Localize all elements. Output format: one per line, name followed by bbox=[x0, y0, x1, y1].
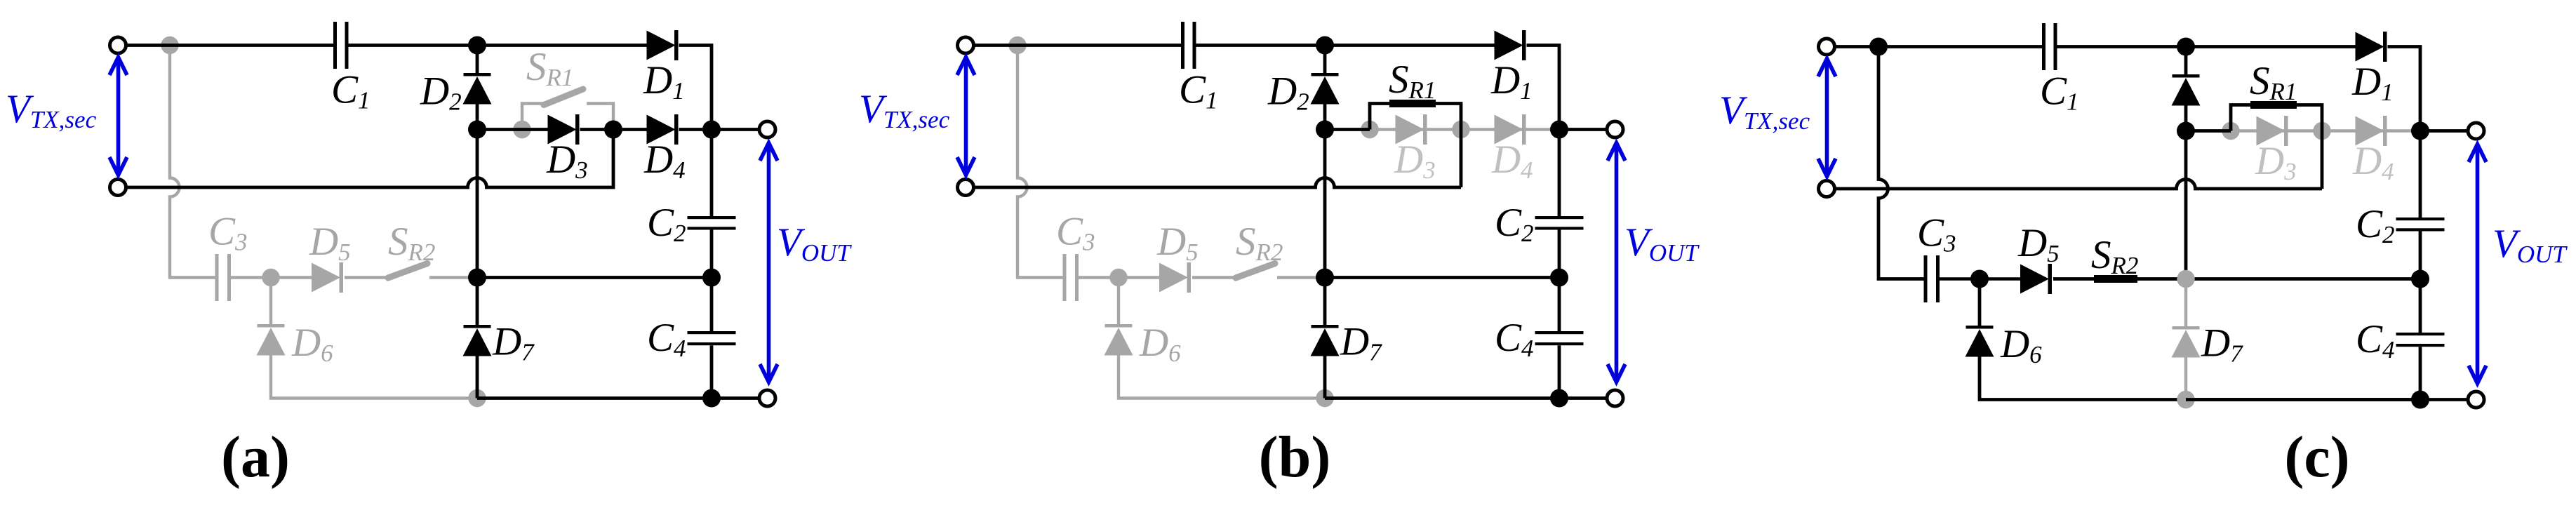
wire: C3 to D5 bbox=[1079, 276, 1159, 279]
svg-text:D4: D4 bbox=[2352, 139, 2394, 185]
junction dot: D3/D4 junction bbox=[2313, 122, 2330, 140]
wire: D1 to top-right corner, down right side bbox=[2388, 47, 2421, 218]
switch SR1 (closed) bypass bbox=[1325, 104, 1461, 188]
wire: output stub bbox=[2420, 129, 2468, 133]
switch SR2 (open) bbox=[388, 264, 427, 279]
capacitor C3 bbox=[215, 254, 219, 301]
svg-text:D1: D1 bbox=[643, 58, 685, 105]
junction dot: D3 anode bbox=[1361, 121, 1378, 138]
diode D2 bbox=[2173, 74, 2200, 78]
capacitor C2 bbox=[2396, 218, 2445, 220]
capacitor C2 bbox=[688, 216, 736, 219]
junction dot: bottom output node bbox=[702, 389, 721, 408]
wire: D5 through SR2 to node bbox=[2053, 277, 2186, 281]
junction dot: D2 top bbox=[2177, 38, 2195, 56]
svg-text:C4: C4 bbox=[1495, 316, 1534, 362]
wire: D6 branch down bbox=[1117, 278, 1120, 325]
svg-text:D1: D1 bbox=[1490, 58, 1533, 105]
terminal: Vout - bbox=[1607, 390, 1623, 406]
junction dot: C3/D5/D6 node bbox=[1970, 270, 1989, 288]
svg-text:SR1: SR1 bbox=[1389, 58, 1436, 104]
svg-text:C2: C2 bbox=[1495, 201, 1534, 247]
diode D3 (off) bbox=[1396, 115, 1424, 145]
svg-text:D2: D2 bbox=[420, 69, 462, 116]
panel (a) bbox=[6, 22, 852, 490]
junction dot: secondary tap on top wire bbox=[161, 36, 178, 54]
svg-text:VOUT: VOUT bbox=[2492, 222, 2568, 268]
wire: bottom rail bbox=[477, 396, 712, 400]
terminal: Vout - bbox=[2468, 392, 2484, 408]
diode D4 (off) bbox=[2356, 116, 2384, 146]
svg-text:(a): (a) bbox=[221, 424, 290, 490]
svg-text:VTX,sec: VTX,sec bbox=[6, 87, 97, 133]
diode D7 bbox=[1312, 325, 1339, 328]
junction dot: D2 top bbox=[1316, 36, 1334, 55]
svg-text:D3: D3 bbox=[1394, 138, 1436, 184]
switch SR1 (closed) bypass bbox=[2186, 105, 2322, 189]
diode D5 bbox=[312, 263, 340, 293]
junction dot: D2 bottom node bbox=[1316, 121, 1334, 139]
wire: top rail bbox=[126, 44, 333, 47]
diode D1 bbox=[2356, 32, 2384, 62]
svg-text:C4: C4 bbox=[2356, 317, 2395, 363]
wire: bottom rail bbox=[2186, 398, 2420, 401]
diode D6 bbox=[1105, 324, 1133, 328]
capacitor C1 bbox=[333, 22, 337, 69]
svg-text:C2: C2 bbox=[647, 201, 686, 247]
Vout arrow bbox=[1615, 145, 1619, 380]
capacitor C4 bbox=[2396, 333, 2445, 335]
wire: mid horizontal (C2/C4 junction row) bbox=[477, 276, 712, 279]
svg-text:VOUT: VOUT bbox=[777, 220, 852, 267]
junction dot: output node bbox=[2411, 122, 2429, 140]
wire: mid rectifier wire bbox=[477, 128, 548, 131]
svg-text:C3: C3 bbox=[1917, 211, 1956, 257]
wire: D1 to top-right corner, down right side bbox=[1527, 46, 1560, 217]
diode D1 bbox=[647, 31, 676, 60]
wire: mid horizontal (C2/C4 junction row) bbox=[2186, 277, 2420, 281]
diode D2 bbox=[1312, 73, 1339, 76]
svg-text:(b): (b) bbox=[1259, 424, 1331, 490]
junction dot: output node bbox=[702, 121, 721, 139]
Vtx arrow bbox=[964, 59, 968, 173]
svg-text:VOUT: VOUT bbox=[1624, 220, 1700, 267]
junction dot: SR1 left contact bbox=[513, 121, 530, 138]
junction dot: D7 bottom on bottom rail bbox=[1316, 389, 1333, 407]
svg-text:SR1: SR1 bbox=[526, 45, 573, 91]
terminal: transformer + bbox=[1819, 39, 1835, 55]
svg-text:C1: C1 bbox=[2040, 69, 2079, 116]
junction dot: C2/C4 node bbox=[1550, 269, 1568, 287]
terminal: transformer - bbox=[110, 180, 126, 196]
terminal: Vout - bbox=[759, 390, 775, 406]
junction dot: C2/C4 node bbox=[702, 269, 721, 287]
svg-text:D7: D7 bbox=[1340, 320, 1382, 366]
wire: mid horizontal (C2/C4 junction row) bbox=[1325, 276, 1559, 279]
svg-text:D3: D3 bbox=[546, 138, 588, 184]
capacitor C3 bbox=[1924, 255, 1928, 302]
terminal: transformer - bbox=[1819, 181, 1835, 197]
wire: D6 to bottom rail bbox=[271, 355, 477, 399]
diode D3 bbox=[548, 115, 577, 145]
svg-text:D2: D2 bbox=[1267, 69, 1309, 116]
wire: lower transformer wire with hop over main vertical bbox=[1835, 180, 2322, 189]
capacitor C4 bbox=[1535, 331, 1584, 334]
wire: main vertical (D2/D7 branch) bbox=[1323, 46, 1327, 74]
svg-text:VTX,sec: VTX,sec bbox=[1719, 88, 1810, 135]
svg-text:SR2: SR2 bbox=[2091, 233, 2138, 279]
junction dot: D2 top bbox=[468, 36, 486, 55]
capacitor C4 bbox=[688, 331, 736, 334]
svg-text:SR1: SR1 bbox=[2250, 59, 2297, 105]
svg-text:VTX,sec: VTX,sec bbox=[859, 87, 950, 133]
wire: SR2 to node bbox=[1277, 276, 1325, 279]
junction dot: D7 bottom on bottom rail bbox=[2177, 391, 2194, 408]
wire: output stub bbox=[712, 128, 759, 131]
diode D2 bbox=[464, 73, 491, 76]
svg-text:D1: D1 bbox=[2351, 60, 2394, 106]
junction dot: secondary tap on top wire bbox=[1008, 36, 1026, 54]
diode D6 bbox=[258, 324, 285, 328]
svg-text:C2: C2 bbox=[2356, 202, 2395, 248]
svg-text:D5: D5 bbox=[2017, 221, 2060, 267]
svg-text:C1: C1 bbox=[331, 68, 371, 114]
wire: lower transformer wire with hop over main vertical bbox=[126, 130, 613, 188]
diode D4 (off) bbox=[1495, 115, 1523, 145]
wire: D6 branch down bbox=[1978, 279, 1982, 326]
junction dot: D3 anode bbox=[2222, 122, 2239, 140]
capacitor C1 bbox=[2042, 23, 2046, 70]
svg-text:D3: D3 bbox=[2255, 139, 2297, 185]
wire: C3 to D5 bbox=[1940, 277, 2020, 280]
diode D7 bbox=[2173, 326, 2200, 330]
svg-text:D7: D7 bbox=[492, 320, 535, 366]
wire: D6 to bottom rail bbox=[1119, 355, 1325, 399]
junction dot: D7 top (off) bbox=[2177, 270, 2194, 288]
junction dot: bottom output node bbox=[2411, 391, 2429, 409]
wire: bottom rail bbox=[1325, 396, 1559, 400]
svg-text:D4: D4 bbox=[1491, 138, 1533, 184]
svg-text:SR2: SR2 bbox=[1236, 220, 1283, 266]
svg-text:D6: D6 bbox=[291, 321, 333, 367]
junction dot: D7 top node bbox=[1316, 269, 1334, 287]
terminal: transformer - bbox=[958, 180, 974, 196]
capacitor C2 bbox=[1535, 216, 1584, 219]
svg-text:D5: D5 bbox=[1156, 220, 1199, 266]
svg-text:SR2: SR2 bbox=[388, 220, 435, 266]
Vtx arrow bbox=[1825, 60, 1829, 175]
switch SR1 lever bbox=[544, 89, 583, 105]
junction dot: D2 bottom node bbox=[2177, 122, 2195, 140]
junction dot: bottom output node bbox=[1550, 389, 1568, 408]
wire: left secondary branch vertical with hop over lower wire bbox=[1017, 46, 1063, 278]
Vtx arrow bbox=[116, 59, 121, 173]
junction dot: D2 bottom node bbox=[468, 121, 486, 139]
wire: output stub bbox=[1559, 128, 1607, 131]
junction dot: C3/D5/D6 node bbox=[262, 269, 279, 286]
capacitor C1 bbox=[1181, 22, 1184, 69]
junction dot: D7 top node bbox=[468, 269, 486, 287]
panel (b) bbox=[859, 22, 1700, 490]
svg-text:C4: C4 bbox=[647, 316, 686, 362]
wire: main vertical (D2/D7 branch) bbox=[476, 46, 479, 74]
switch SR1 (open) contacts bbox=[522, 104, 545, 130]
wire: D6 to bottom rail bbox=[1980, 356, 2420, 400]
svg-text:D4: D4 bbox=[643, 138, 686, 184]
junction dot: D3/D4 bbox=[604, 121, 622, 139]
terminal: Vout + bbox=[1607, 121, 1623, 138]
junction dot: D7 bottom on bottom rail bbox=[468, 389, 486, 407]
diode D3 (off) bbox=[2257, 116, 2285, 146]
wire: D1 to top-right corner, down right side bbox=[679, 46, 712, 217]
terminal: transformer + bbox=[110, 37, 126, 53]
switch SR2 (open) bbox=[1236, 264, 1275, 279]
diode D4 bbox=[647, 115, 676, 145]
diode D5 bbox=[1159, 263, 1188, 293]
wire: D5 to switch SR2 bbox=[1192, 276, 1234, 279]
gray mid wire through D3 D4 bbox=[2231, 129, 2420, 132]
diode D1 bbox=[1495, 31, 1523, 60]
svg-text:D6: D6 bbox=[1139, 321, 1181, 367]
junction dot: C2/C4 node bbox=[2411, 270, 2429, 288]
Vout arrow bbox=[767, 145, 771, 380]
svg-text:D6: D6 bbox=[2000, 322, 2042, 368]
diode D6 bbox=[1966, 326, 1994, 329]
diode D7 bbox=[464, 325, 491, 328]
wire: SR2 to node bbox=[429, 276, 477, 279]
terminal: Vout + bbox=[759, 121, 775, 138]
panel (c) bbox=[1719, 23, 2568, 490]
terminal: Vout + bbox=[2468, 123, 2484, 139]
wire: lower transformer wire with hop over main vertical bbox=[974, 178, 1461, 187]
junction dot: secondary tap on top wire bbox=[1869, 38, 1888, 56]
wire: left secondary branch vertical with hop over lower wire bbox=[170, 46, 215, 278]
wire: D6 branch down bbox=[269, 278, 272, 325]
Vout arrow bbox=[2476, 146, 2480, 382]
junction dot: output node bbox=[1550, 121, 1568, 139]
junction dot: D3/D4 junction bbox=[1452, 121, 1469, 138]
svg-text:C3: C3 bbox=[208, 210, 248, 256]
svg-text:(c): (c) bbox=[2284, 424, 2349, 490]
diode D5 bbox=[2020, 265, 2049, 294]
gray mid wire through D3 D4 bbox=[1370, 128, 1559, 131]
svg-text:D7: D7 bbox=[2201, 321, 2243, 368]
wire: top rail bbox=[974, 44, 1181, 47]
svg-text:D5: D5 bbox=[309, 220, 351, 266]
wire: top rail bbox=[1835, 45, 2042, 48]
wire: left secondary branch vertical with hop over lower wire bbox=[1878, 47, 1924, 279]
wire: C3 to D5 bbox=[231, 276, 312, 279]
svg-text:C1: C1 bbox=[1179, 68, 1218, 114]
wire: main vertical (D2/D7 branch) bbox=[2184, 47, 2188, 75]
switch SR2 (closed) bbox=[2094, 275, 2137, 283]
junction dot: C3/D5/D6 node bbox=[1109, 269, 1127, 286]
terminal: transformer + bbox=[958, 37, 974, 53]
capacitor C3 bbox=[1063, 254, 1067, 301]
wire: D5 to switch SR2 bbox=[345, 276, 387, 279]
svg-text:C3: C3 bbox=[1056, 210, 1095, 256]
